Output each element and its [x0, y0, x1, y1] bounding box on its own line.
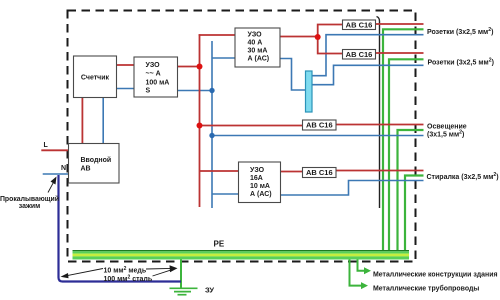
svg-text:40 А: 40 А: [248, 40, 263, 47]
svg-text:А (АС): А (АС): [248, 56, 270, 63]
svg-text:зажим: зажим: [19, 203, 40, 210]
piercing clamp arrow: [48, 182, 54, 192]
svg-text:АВ: АВ: [81, 166, 91, 173]
wire N busbar to socket circuit 1: [312, 35, 424, 76]
wire washer circuit L: [336, 170, 424, 172]
wire to breaker 1: [318, 25, 343, 38]
wire RCD 40A N out to busbar: [280, 59, 306, 91]
wire N to RCD 40A: [212, 57, 235, 59]
svg-text:АВ С16: АВ С16: [306, 168, 333, 177]
PEN down conductor to ground: [59, 175, 182, 282]
svg-text:PE: PE: [214, 240, 225, 249]
svg-text:АВ С16: АВ С16: [306, 121, 333, 130]
svg-text:УЗО: УЗО: [250, 167, 265, 174]
PE riser to washer: [405, 176, 424, 251]
PE riser to lighting: [398, 130, 424, 250]
svg-text:Металлические конструкции здан: Металлические конструкции здания: [373, 271, 498, 278]
wire L distribution vertical: [199, 34, 201, 207]
wire RCD out L: [178, 66, 201, 68]
svg-text:10 мА: 10 мА: [250, 183, 270, 190]
svg-text:~~ А: ~~ А: [146, 71, 161, 78]
wire RCD out N: [178, 90, 213, 92]
arrow to ground wire upper: [146, 267, 171, 270]
svg-text:Стиралка (3х2,5 мм2): Стиралка (3х2,5 мм2): [427, 172, 499, 181]
PE bond to building structures: [358, 260, 366, 271]
arrow to ground wire lower: [153, 270, 172, 276]
RCD УЗО 16А: [239, 162, 281, 203]
PE bond to metal pipes: [350, 260, 363, 286]
meter Счетчик: [74, 56, 117, 98]
node L junction sockets feed: [315, 34, 321, 40]
wire N input: [43, 173, 69, 175]
black riser line: [377, 17, 380, 209]
svg-text:Прокалывающий: Прокалывающий: [0, 195, 59, 203]
PE riser to sockets 1: [383, 29, 424, 250]
svg-text:АВ С16: АВ С16: [346, 20, 373, 29]
svg-text:Счетчик: Счетчик: [81, 75, 110, 82]
svg-text:Розетки (3х2,5 мм2): Розетки (3х2,5 мм2): [428, 57, 494, 66]
RCD УЗО 40А: [235, 28, 280, 67]
wire meter to RCD N: [117, 88, 135, 90]
svg-text:16А: 16А: [250, 175, 263, 182]
N busbar: [306, 71, 313, 112]
svg-text:100 мА: 100 мА: [146, 80, 170, 87]
main breaker Вводной АВ: [69, 144, 120, 184]
wire lighting circuit L: [336, 124, 424, 126]
svg-text:УЗО: УЗО: [146, 62, 161, 69]
breaker АВ С16 no.2: [343, 50, 376, 60]
ground electrode ЗУ: [170, 288, 198, 294]
breaker АВ С16 no.1: [343, 20, 376, 30]
wire washer RCD L out: [281, 171, 303, 173]
node L junction lighting: [197, 123, 203, 129]
svg-text:L: L: [44, 142, 49, 149]
breaker АВ С16 no.4: [303, 168, 337, 178]
breaker АВ С16 no.3: [303, 120, 337, 130]
wire to breaker 2: [318, 37, 343, 54]
svg-text:S: S: [146, 88, 151, 95]
PE riser to sockets 2: [389, 59, 424, 250]
svg-text:Вводной: Вводной: [81, 156, 112, 164]
wire socket circuit 1 L: [376, 23, 424, 25]
svg-text:УЗО: УЗО: [248, 32, 263, 39]
wire meter to RCD L: [117, 64, 135, 66]
wire socket circuit 2 L: [376, 52, 424, 54]
wire N distribution vertical: [211, 41, 213, 208]
wire washer RCD N input: [212, 193, 239, 195]
svg-text:N: N: [61, 165, 66, 172]
enclosure dashed border: [68, 11, 416, 262]
PE drop to ground electrode: [180, 260, 182, 288]
svg-text:10 мм2 медь: 10 мм2 медь: [104, 266, 147, 275]
wire RCD 40A out L: [280, 36, 318, 38]
PE busbar: [73, 250, 410, 260]
svg-text:30 мА: 30 мА: [248, 48, 268, 55]
wire neutral riser meter to main breaker: [102, 98, 104, 144]
node N junction lighting: [209, 133, 214, 138]
svg-text:АВ С16: АВ С16: [346, 50, 373, 59]
svg-text:ЗУ: ЗУ: [205, 286, 214, 295]
wire washer RCD L input: [200, 170, 239, 172]
node L junction at RCD output: [197, 64, 203, 70]
wire L to RCD 40A: [199, 34, 235, 36]
node N junction at RCD output: [209, 88, 214, 93]
svg-text:Розетки (3х2,5 мм2): Розетки (3х2,5 мм2): [427, 27, 493, 36]
wire lighting N: [212, 135, 424, 137]
svg-text:Металлические трубопроводы: Металлические трубопроводы: [373, 284, 479, 292]
wire N busbar to socket circuit 2: [312, 65, 424, 84]
arrow to PEN conductor: [66, 269, 103, 276]
svg-text:А (АС): А (АС): [250, 191, 272, 198]
RCD УЗО 100мА: [134, 57, 178, 97]
wire L input: [41, 149, 68, 151]
wire phase riser meter to main breaker: [81, 98, 83, 144]
wire lighting breaker input: [200, 125, 303, 127]
wire washer N out: [281, 181, 424, 196]
svg-text:(3х1,5 мм2): (3х1,5 мм2): [427, 129, 464, 138]
